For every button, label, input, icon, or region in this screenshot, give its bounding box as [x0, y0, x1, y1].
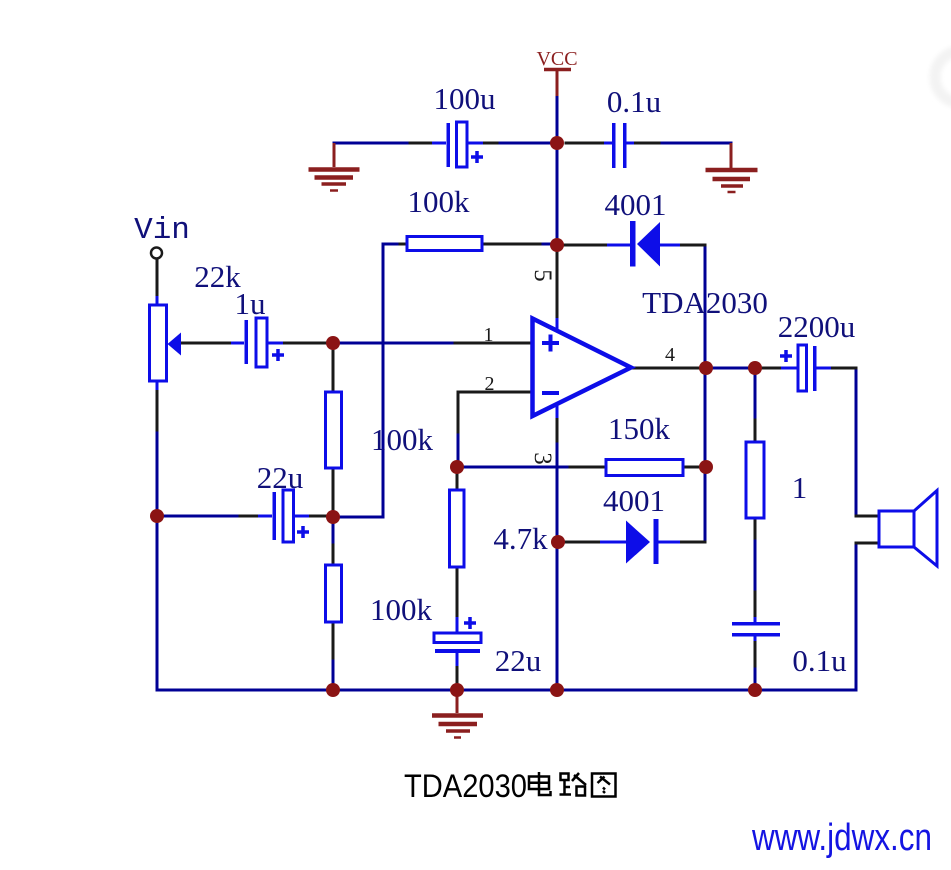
svg-text:22u: 22u [495, 643, 542, 678]
svg-text:4001: 4001 [605, 187, 667, 222]
svg-text:TDA2030: TDA2030 [642, 285, 768, 320]
svg-text:100k: 100k [408, 184, 471, 219]
svg-text:0.1u: 0.1u [792, 643, 846, 678]
svg-text:1: 1 [792, 470, 808, 505]
svg-text:100u: 100u [434, 81, 496, 116]
svg-text:Vin: Vin [134, 213, 190, 248]
svg-text:VCC: VCC [536, 48, 577, 70]
svg-text:3: 3 [529, 452, 556, 465]
svg-text:TDA2030: TDA2030 [404, 768, 527, 804]
svg-text:4: 4 [665, 344, 675, 366]
svg-text:1u: 1u [235, 286, 266, 321]
svg-text:0.1u: 0.1u [607, 84, 661, 119]
svg-text:100k: 100k [371, 422, 434, 457]
svg-text:4.7k: 4.7k [493, 521, 548, 556]
svg-text:www.jdwx.cn: www.jdwx.cn [751, 817, 932, 859]
svg-text:5: 5 [529, 269, 556, 282]
svg-text:2: 2 [485, 373, 495, 395]
svg-text:100k: 100k [370, 592, 433, 627]
svg-text:4001: 4001 [603, 483, 665, 518]
svg-text:1: 1 [484, 324, 494, 346]
svg-text:22u: 22u [257, 460, 304, 495]
svg-text:150k: 150k [608, 411, 671, 446]
svg-text:2200u: 2200u [778, 309, 856, 344]
